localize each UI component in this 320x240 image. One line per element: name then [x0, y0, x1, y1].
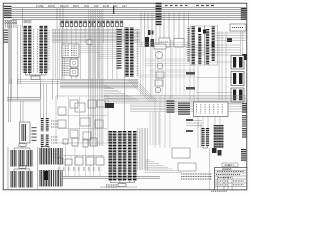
component F1 [156, 72, 164, 78]
sheet number note [222, 163, 238, 167]
harness diagonals [128, 80, 150, 102]
connector C1 pin strips [24, 26, 34, 73]
mid-upper bundle drops [52, 30, 54, 81]
wire drops from top bus [22, 8, 24, 29]
circuit block B9 [70, 130, 78, 138]
fuse row connectors [61, 21, 64, 27]
bottom block D6 [65, 159, 72, 165]
connector C9 pin strips [201, 128, 204, 146]
connector C8 side text [106, 184, 117, 186]
right top small blobs [227, 38, 232, 42]
component F2 [155, 80, 163, 86]
center vertical pair [140, 47, 142, 95]
circuit outline [56, 96, 108, 143]
bottom gray band [137, 128, 139, 170]
connector C1/C2 bracket [25, 73, 46, 76]
connector CR1 shell [190, 26, 205, 65]
coil box [159, 38, 170, 47]
relay block wires [196, 61, 232, 63]
left power feed labels [4, 6, 12, 7]
connector C4b pin strips [41, 118, 44, 132]
connector C8 pin strips [110, 131, 134, 181]
bottom block D4 [90, 138, 97, 146]
top header labels [36, 4, 127, 8]
right edge labels low [241, 149, 246, 150]
connector C10 block [215, 125, 223, 148]
bottom-right box E1 [172, 148, 190, 158]
bottom block D5 [57, 158, 63, 164]
circuit block B10 [83, 132, 91, 140]
connector C6 row1 [39, 148, 41, 165]
harness bundle lower2 [130, 104, 195, 106]
distributor box [174, 39, 184, 48]
bottom block D1 [63, 139, 68, 144]
sensor blobs [145, 37, 149, 47]
connector C3 wire labels [117, 29, 122, 30]
harness lower drops [149, 112, 151, 145]
bottom block D7 [75, 157, 83, 165]
legend left wires [209, 148, 211, 190]
legend table [215, 168, 247, 190]
bottom band staircase [145, 159, 150, 161]
circuit block B7 [80, 118, 90, 126]
connector C7 row1 [53, 148, 55, 165]
instrument wires vertical 2 [155, 48, 157, 95]
bottom-right note text [181, 173, 212, 175]
circuit block B1 [58, 107, 66, 115]
top header tick marks [165, 5, 190, 7]
strip stack labels [51, 120, 58, 122]
relay K2 [70, 69, 78, 77]
instrument wires vertical [150, 40, 152, 99]
connector C7 row2 [53, 170, 55, 187]
mid-upper wire bundle [52, 29, 140, 31]
upper right wire drops [140, 13, 142, 48]
gauge G1 [156, 52, 163, 59]
bottom block D3 [83, 139, 88, 147]
relay K1 [70, 59, 78, 67]
right edge labels mid3 [242, 128, 247, 129]
circuit block B3 [70, 100, 78, 108]
gauge G2 [157, 63, 163, 69]
circuit block B4 [75, 103, 85, 112]
central bundle staircase [104, 85, 107, 87]
bottom ladder rail [57, 155, 104, 157]
connector CR2 shell [205, 26, 218, 65]
circuit block B2 [58, 120, 66, 128]
connector C8 bracket [110, 181, 134, 184]
page footer text [211, 190, 227, 192]
harness bundle lower [104, 95, 246, 97]
right lower blobs [212, 148, 217, 153]
connector C3 pin strips [127, 28, 138, 78]
left mid wires [7, 97, 40, 99]
right top verticals [218, 31, 220, 100]
pinout reference box [194, 102, 229, 117]
left pin row [4, 19, 17, 21]
bottom bus wires [63, 176, 160, 178]
harness line [123, 27, 125, 131]
connector C5 row1 [10, 150, 12, 167]
connector C4 labels [32, 127, 37, 128]
connector C1 id label [24, 20, 31, 23]
border frame [3, 3, 247, 190]
circuit blob [105, 103, 114, 108]
connector C2 pin strips [38, 26, 48, 73]
relay block RB1 [231, 56, 244, 70]
central vertical bundle [88, 10, 90, 147]
meter box [154, 44, 166, 49]
junction box small [87, 40, 92, 45]
motor M1 [155, 87, 161, 93]
pinout box wires [228, 103, 246, 105]
connector C4c pin strips [41, 135, 44, 148]
bottom block D9 [96, 157, 104, 165]
right top horizontals [215, 32, 246, 34]
bottom box text marks [58, 167, 102, 169]
right top box [230, 24, 246, 31]
left connector labels [3, 30, 8, 31]
bottom right wires [154, 95, 156, 148]
connector CR1 pin strips [193, 27, 200, 65]
relay block RB2 [231, 72, 244, 86]
junction label text rows [62, 58, 69, 60]
bottom block D2 [72, 138, 78, 146]
center top label column [156, 3, 162, 5]
connector CR blobs [203, 30, 206, 34]
relay block RB3 [231, 88, 244, 102]
svg-text:LEGEND: LEGEND [222, 169, 232, 171]
junction label table [62, 44, 79, 58]
main harness bundle [17, 79, 60, 81]
feed line top [113, 6, 115, 14]
left edge wires [9, 25, 11, 84]
left mid vertical wires [40, 84, 42, 118]
bottom-right box E2 [178, 163, 196, 171]
relay block labels [186, 72, 195, 75]
circuit interconnect wires [58, 115, 107, 117]
instrument wires horizontal [138, 42, 195, 44]
harness wire labels [167, 101, 175, 102]
mid wires below bundle [80, 44, 124, 46]
connector C5 row2 [10, 171, 12, 188]
right edge labels mid2 [242, 115, 247, 116]
connector CR labels [188, 28, 190, 62]
right edge labels mid [242, 103, 247, 104]
connector C6 frame [7, 147, 9, 189]
circuit block B8 [95, 120, 103, 128]
connector CR2 pin strips [208, 27, 214, 65]
svg-text:SHEET 1: SHEET 1 [225, 164, 236, 167]
bottom block D8 [86, 157, 94, 165]
connector C6 row2 [39, 170, 41, 187]
circuit block B6 [97, 100, 105, 107]
circuit block B5 [88, 100, 96, 108]
top bus wires [12, 7, 247, 9]
connector C4 [20, 122, 31, 143]
wires below connectors [11, 79, 13, 100]
right edge labels top [241, 8, 247, 9]
right lower wires [197, 117, 199, 128]
